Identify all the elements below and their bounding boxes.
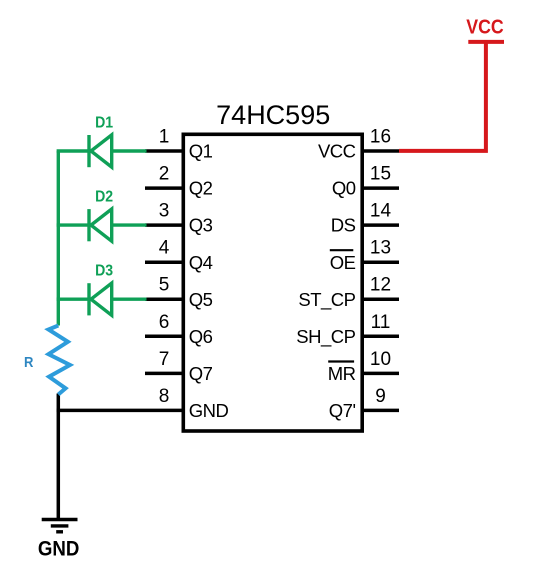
- svg-text:16: 16: [370, 127, 391, 148]
- svg-text:7: 7: [159, 349, 170, 370]
- svg-text:Q3: Q3: [189, 215, 213, 236]
- svg-text:VCC: VCC: [466, 16, 504, 38]
- svg-text:4: 4: [159, 238, 170, 259]
- svg-text:D1: D1: [95, 114, 113, 131]
- svg-text:Q7': Q7': [329, 400, 356, 421]
- svg-text:Q0: Q0: [332, 178, 356, 199]
- svg-text:DS: DS: [331, 215, 356, 236]
- svg-text:GND: GND: [38, 535, 80, 560]
- svg-text:11: 11: [371, 312, 391, 333]
- svg-text:Q2: Q2: [189, 178, 213, 199]
- svg-text:GND: GND: [189, 400, 229, 421]
- svg-text:D3: D3: [95, 263, 113, 280]
- svg-text:10: 10: [370, 349, 391, 370]
- svg-text:14: 14: [370, 201, 392, 222]
- svg-text:12: 12: [370, 275, 391, 296]
- svg-text:ST_CP: ST_CP: [298, 289, 355, 311]
- svg-text:9: 9: [375, 386, 386, 407]
- svg-text:74HC595: 74HC595: [216, 100, 330, 130]
- svg-text:OE: OE: [330, 252, 356, 273]
- svg-text:VCC: VCC: [318, 141, 356, 162]
- svg-text:1: 1: [159, 127, 170, 148]
- svg-text:Q5: Q5: [189, 289, 213, 310]
- svg-text:15: 15: [370, 164, 391, 185]
- svg-text:Q1: Q1: [189, 141, 213, 162]
- svg-text:Q4: Q4: [189, 252, 213, 273]
- svg-text:13: 13: [370, 238, 391, 259]
- svg-text:Q6: Q6: [189, 326, 213, 347]
- svg-text:6: 6: [159, 312, 170, 333]
- svg-text:SH_CP: SH_CP: [296, 326, 355, 348]
- svg-text:R: R: [24, 355, 34, 371]
- svg-text:3: 3: [159, 201, 170, 222]
- svg-text:2: 2: [159, 164, 170, 185]
- svg-text:MR: MR: [328, 363, 356, 384]
- svg-text:5: 5: [159, 275, 170, 296]
- svg-text:D2: D2: [95, 188, 113, 205]
- svg-text:8: 8: [159, 386, 170, 407]
- svg-text:Q7: Q7: [189, 363, 213, 384]
